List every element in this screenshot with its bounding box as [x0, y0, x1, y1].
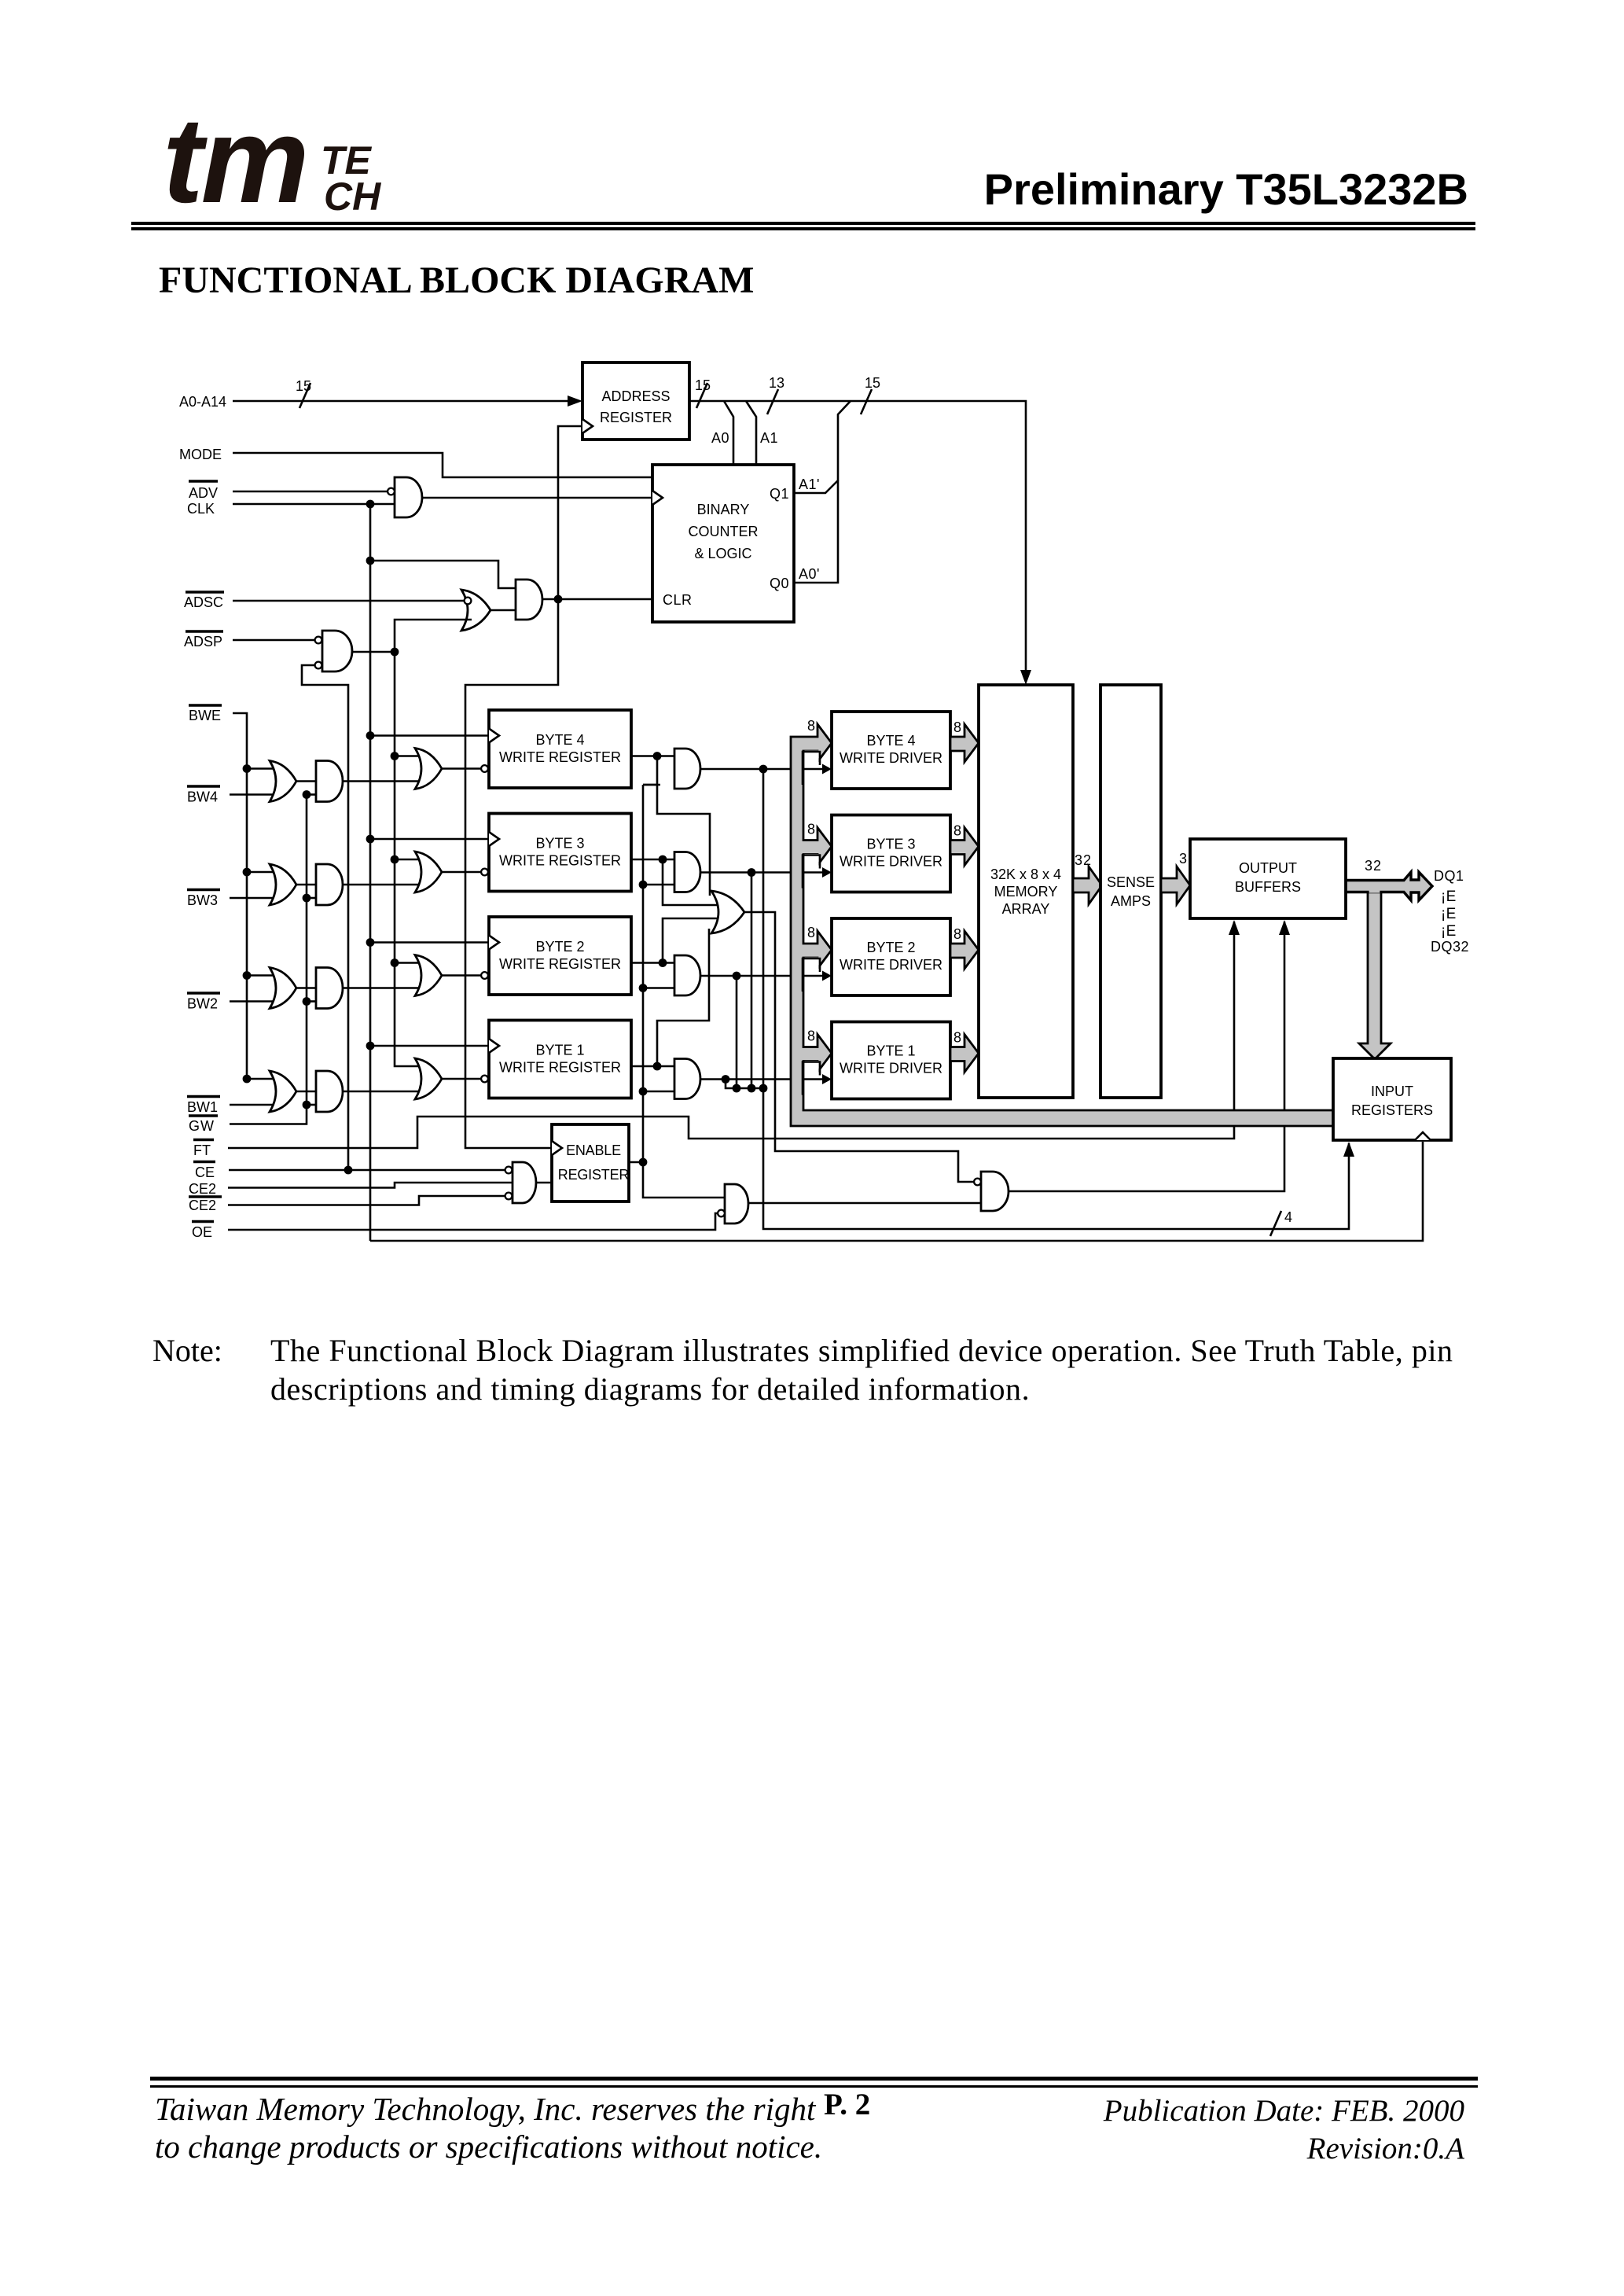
svg-text:OUTPUT: OUTPUT: [1239, 860, 1297, 876]
AND gate byte 2 write driver enable: [674, 955, 700, 995]
wire CLK branch to ADSC AND gate: [370, 561, 516, 588]
svg-text:A0-A14: A0-A14: [179, 394, 226, 410]
wire OR output into byte 1 register bubble: [442, 1076, 488, 1083]
svg-text:13: 13: [769, 375, 784, 391]
white notch arrow byte 3 driver: [803, 854, 832, 889]
svg-text:8: 8: [953, 823, 961, 839]
svg-text:WRITE REGISTER: WRITE REGISTER: [499, 956, 621, 972]
sense amps: [1100, 685, 1161, 1098]
svg-text:A0': A0': [799, 566, 820, 582]
svg-text:MEMORY: MEMORY: [994, 884, 1058, 900]
byte 1 write register: [489, 1021, 631, 1098]
svg-text:SENSE: SENSE: [1107, 874, 1155, 890]
wire OR to AND byte 3: [296, 884, 316, 886]
svg-text:CLR: CLR: [663, 592, 693, 608]
svg-text:BYTE 3: BYTE 3: [535, 836, 584, 852]
svg-text:8: 8: [807, 925, 815, 940]
gray arrow memory to sense amps: [1073, 867, 1102, 904]
svg-text:15: 15: [296, 378, 311, 394]
wire byte2 enable drop: [736, 976, 738, 1088]
DQ32 label: [1431, 939, 1469, 955]
OR gate byte 4 register write input: [415, 749, 442, 789]
byte 1 write driver: [832, 1022, 950, 1099]
wire A1 branch into counter: [746, 401, 756, 465]
svg-text:REGISTERS: REGISTERS: [1351, 1102, 1433, 1118]
wire CE2-bar into enable NAND: [228, 1196, 509, 1205]
wire ADSP-NAND output net: [352, 620, 472, 1066]
wire U7 output to output buffers: [1009, 920, 1290, 1191]
wire enable register clock path: [465, 599, 558, 1148]
svg-text:BYTE 4: BYTE 4: [866, 733, 915, 749]
wire MODE to binary counter: [233, 453, 652, 477]
svg-text:ADV: ADV: [189, 485, 218, 501]
bus slash 15 after counter merge: [861, 375, 880, 414]
pin label Q1: [770, 486, 789, 502]
CLK rail vertical with register clock taps: [366, 504, 375, 1241]
svg-text:CE2: CE2: [189, 1198, 216, 1213]
wire byte3 enable drop: [751, 873, 753, 1089]
bus slash 13: [767, 375, 784, 414]
OR gate byte 3 write select (BWE/BW3): [270, 864, 296, 905]
DQ1 label: [1434, 868, 1464, 884]
wire byte 4 AND output to write driver: [700, 765, 791, 774]
OR gate byte 4 write select (BWE/BW4): [270, 761, 296, 802]
footer double rule: [150, 2077, 1478, 2081]
input label BW4 (active low): [187, 786, 220, 805]
bus width label 8 out of byte 4 driver: [953, 719, 961, 735]
svg-text:COUNTER: COUNTER: [689, 524, 759, 539]
wire byte 4 output to middle OR top: [657, 756, 710, 896]
svg-text:BYTE 1: BYTE 1: [535, 1043, 584, 1058]
svg-text:BWE: BWE: [189, 708, 221, 723]
svg-text:8: 8: [807, 822, 815, 837]
svg-text:4: 4: [1284, 1209, 1292, 1225]
OR gate byte 1 write select (BWE/BW1): [270, 1071, 296, 1112]
wire AND output to byte 3 register OR: [343, 884, 423, 886]
svg-text:& LOGIC: & LOGIC: [694, 546, 751, 561]
white notch arrow byte 4 driver: [803, 751, 832, 786]
wire ADSC into OR bubble: [233, 600, 464, 602]
wire OR to AND byte 1: [296, 1091, 316, 1093]
input label ADSC (active low): [184, 592, 224, 610]
input label CE2: [189, 1181, 216, 1197]
svg-text:8: 8: [953, 719, 961, 735]
wire AND output to byte 1 register OR: [343, 1091, 423, 1093]
svg-text:15: 15: [695, 377, 711, 393]
wire CE into enable NAND: [229, 1169, 509, 1172]
svg-text:A1': A1': [799, 476, 820, 492]
clock gate U1 (ADV/CLK AND): [388, 477, 422, 517]
svg-text:Q1: Q1: [770, 486, 789, 502]
address register: [582, 362, 689, 440]
svg-text:BYTE 2: BYTE 2: [535, 939, 584, 955]
bus width label 8 out of byte 3 driver: [953, 823, 961, 839]
svg-text:CLK: CLK: [187, 501, 215, 517]
wire A0-A14 bus into address register with arrowhead: [233, 396, 582, 407]
wire byte 2 register clock tap: [366, 938, 489, 947]
svg-text:Q0: Q0: [770, 576, 789, 591]
svg-text:BYTE 2: BYTE 2: [866, 940, 915, 955]
AND gate byte 3 write driver enable: [674, 852, 700, 892]
wire BW2: [230, 1000, 277, 1003]
memory array: [979, 685, 1073, 1098]
wire Q1 / A1 feedback to trunk: [794, 401, 851, 493]
input label OE (active low): [192, 1222, 214, 1241]
wire enable register output: [629, 1161, 643, 1164]
OR gate byte 2 write select (BWE/BW2): [270, 968, 296, 1009]
svg-text:CE2: CE2: [189, 1181, 216, 1197]
wire OR to AND byte 4: [296, 780, 316, 782]
input label BW1 (active low): [187, 1097, 220, 1116]
svg-text:32: 32: [1075, 852, 1092, 868]
svg-text:8: 8: [807, 718, 815, 734]
footer page number: [824, 2089, 870, 2120]
bus slash 15 on A0-A14: [296, 378, 311, 408]
svg-text:DQ32: DQ32: [1431, 939, 1469, 955]
pin label Q0: [770, 576, 789, 591]
input label BWE (active low): [189, 705, 222, 723]
byte 2 write driver: [832, 918, 950, 995]
enable NAND gate U5: [505, 1162, 536, 1203]
svg-text:WRITE DRIVER: WRITE DRIVER: [840, 750, 942, 766]
svg-text:8: 8: [807, 1028, 815, 1044]
svg-text:BUFFERS: BUFFERS: [1235, 879, 1301, 895]
svg-text:WRITE DRIVER: WRITE DRIVER: [840, 957, 942, 973]
input label FT (active low): [193, 1140, 214, 1159]
wire byte 3 output to middle OR: [663, 859, 724, 905]
input label CLK: [187, 501, 215, 517]
wire byte 1 register clock tap: [366, 1042, 489, 1050]
bus width label 8 into byte 3 driver: [807, 822, 815, 837]
svg-text:MODE: MODE: [179, 447, 222, 462]
wire FT to output buffers enable: [228, 920, 1240, 1148]
bus width label 3 (clipped 32): [1179, 851, 1187, 867]
output buffers: [1190, 839, 1346, 918]
svg-text:DQ1: DQ1: [1434, 868, 1464, 884]
wire byte 2 AND output to write driver: [700, 972, 791, 981]
wire byte 3 register clock tap: [366, 835, 489, 844]
byte 2 write register: [489, 917, 631, 995]
svg-text:OE: OE: [192, 1224, 212, 1240]
gray arrow byte 1 driver to memory: [950, 1035, 979, 1073]
gray DQ bus horizontal with bidirectional arrow: [1346, 872, 1432, 900]
footer right text: [943, 2092, 1464, 2168]
pin label CLR: [663, 592, 693, 608]
wire write enable bundle junctions: [726, 1080, 767, 1093]
AND gate byte 1 write select (GW): [316, 1071, 343, 1112]
input label MODE: [179, 447, 222, 462]
address bus trunk to memory array: [689, 401, 1031, 685]
wire BWE rail feeding byte-write OR gates: [233, 713, 277, 1083]
bus width label 32 memory output: [1075, 852, 1092, 868]
wire CLK into clock gate, junction to CLK rail: [233, 500, 395, 509]
wire middle OR output down to OE gate path: [744, 912, 975, 1182]
pin label A0': [799, 566, 820, 582]
wire byte 4 AND lower stub: [643, 784, 660, 786]
gray DQ bus vertical to input registers: [1359, 891, 1391, 1059]
svg-text:¡E: ¡E: [1441, 906, 1457, 922]
svg-text:ENABLE: ENABLE: [566, 1142, 621, 1158]
byte 3 write register: [489, 814, 631, 892]
svg-text:GW: GW: [189, 1118, 215, 1134]
wire OR output into byte 2 register bubble: [442, 972, 488, 979]
wire byte4 enable drop and 4-bit bundle to input registers: [763, 769, 1354, 1229]
svg-text:BW2: BW2: [187, 996, 218, 1012]
svg-text:BYTE 1: BYTE 1: [866, 1043, 915, 1059]
wire byte 1 output to middle OR bottom: [657, 929, 709, 1066]
pin label A1: [760, 430, 778, 446]
svg-text:WRITE DRIVER: WRITE DRIVER: [840, 854, 942, 870]
logo tmTECH: [163, 99, 307, 221]
bus width label 32 DQ: [1365, 858, 1382, 874]
wire AND output to byte 4 register OR: [343, 780, 423, 782]
wire A0 branch into counter: [724, 401, 733, 465]
binary counter box: [652, 465, 794, 622]
bus slash 15 after address register: [695, 377, 711, 408]
input label CE2 (active low): [189, 1197, 222, 1213]
wire byte 2 output to middle OR: [663, 918, 724, 963]
svg-text:WRITE REGISTER: WRITE REGISTER: [499, 1060, 621, 1076]
input label A0-A14: [179, 394, 226, 410]
pin label A1': [799, 476, 820, 492]
wire BW4: [230, 793, 277, 796]
wire BW1: [230, 1104, 277, 1106]
wire ADSP into NAND bubble: [233, 639, 315, 642]
byte 3 write driver: [832, 815, 950, 892]
AND gate byte 3 write select (GW): [316, 864, 343, 905]
bus width label 8 into byte 4 driver: [807, 718, 815, 734]
wire enable rail elbow: [643, 784, 657, 786]
gray arrow byte 3 driver to memory: [950, 828, 979, 866]
wire byte 4 register output: [631, 752, 674, 760]
wire GW rail feeding AND gates: [230, 790, 316, 1124]
wire enable output to OE gate: [643, 1162, 725, 1198]
svg-text:CE: CE: [195, 1165, 215, 1180]
svg-text:BW1: BW1: [187, 1099, 218, 1115]
wire BW3: [230, 897, 277, 900]
white notch arrow byte 1 driver: [803, 1061, 832, 1095]
bus width label 8 into byte 2 driver: [807, 925, 815, 940]
DQ ellipsis labels: [1441, 889, 1457, 940]
gray arrow byte 2 driver to memory: [950, 931, 979, 969]
input registers: [1333, 1058, 1451, 1140]
svg-text:ADSP: ADSP: [184, 634, 222, 649]
svg-text:FT: FT: [193, 1142, 211, 1158]
wire byte 3 register output: [631, 855, 674, 864]
AND gate byte 1 write driver enable: [674, 1059, 700, 1099]
OR gate byte 3 register write input: [415, 852, 442, 892]
svg-text:REGISTER: REGISTER: [600, 410, 672, 425]
svg-text:¡E: ¡E: [1441, 923, 1457, 940]
svg-text:BINARY: BINARY: [697, 502, 750, 517]
enable register: [552, 1124, 629, 1201]
output enable gate U6: [718, 1184, 748, 1223]
header product title: [827, 167, 1468, 212]
AND gate byte 4 write driver enable: [674, 749, 700, 789]
wire byte 4 register clock tap: [366, 731, 489, 740]
footer left text: [155, 2091, 822, 2166]
svg-text:8: 8: [953, 926, 961, 942]
svg-text:AMPS: AMPS: [1111, 893, 1151, 909]
svg-text:BYTE 3: BYTE 3: [866, 837, 915, 852]
note paragraph: [152, 1332, 222, 1371]
svg-text:REGISTER: REGISTER: [558, 1167, 630, 1183]
svg-text:BW3: BW3: [187, 892, 218, 908]
wire enable register output rail: [639, 785, 674, 1166]
svg-text:ADDRESS: ADDRESS: [601, 388, 670, 404]
byte 4 write register: [489, 710, 631, 788]
svg-text:A1: A1: [760, 430, 778, 446]
svg-text:ARRAY: ARRAY: [1002, 901, 1050, 917]
wire ADV into NAND bubble: [233, 491, 388, 493]
svg-text:8: 8: [953, 1030, 961, 1046]
wire CE2 into enable NAND: [228, 1183, 513, 1188]
svg-text:INPUT: INPUT: [1371, 1084, 1413, 1099]
NAND gate U4 (ADSP NAND): [315, 631, 352, 672]
OR gate U2 (ADSC OR): [461, 590, 491, 631]
wire byte 2 register output: [631, 959, 674, 967]
svg-text:¡E: ¡E: [1441, 889, 1457, 905]
input label CE (active low): [193, 1162, 215, 1181]
input label BW3 (active low): [187, 890, 220, 909]
wire OR to AND byte 2: [296, 987, 316, 989]
pin label A0: [711, 430, 729, 446]
svg-text:BW4: BW4: [187, 789, 218, 805]
svg-text:BYTE 4: BYTE 4: [535, 732, 584, 748]
wire OR output into byte 3 register bubble: [442, 869, 488, 876]
svg-text:3: 3: [1179, 851, 1187, 867]
bus slash 4: [1270, 1209, 1292, 1236]
wire CLK rail to input registers clock: [370, 1142, 1423, 1241]
wire U2 output to U3: [491, 609, 516, 612]
wire byte 1 register output: [631, 1062, 674, 1071]
bus width label 8 out of byte 1 driver: [953, 1030, 961, 1046]
wire clock gate output to binary counter clock: [422, 497, 652, 499]
svg-text:32: 32: [1365, 858, 1382, 874]
svg-text:ADSC: ADSC: [184, 594, 223, 610]
gray write data bus with byte driver arrows: [791, 724, 1333, 1126]
wire OR output into byte 4 register bubble: [442, 765, 488, 772]
svg-text:WRITE REGISTER: WRITE REGISTER: [499, 749, 621, 765]
svg-text:WRITE DRIVER: WRITE DRIVER: [840, 1061, 942, 1076]
gray arrow sense amps to output buffers: [1161, 867, 1190, 904]
bus width label 8 into byte 1 driver: [807, 1028, 815, 1044]
input label BW2 (active low): [187, 993, 220, 1012]
svg-text:15: 15: [865, 375, 880, 391]
output enable gate U7: [974, 1172, 1009, 1211]
header double rule: [131, 222, 1475, 225]
middle OR gate (register outputs combiner): [711, 891, 744, 933]
wire AND output to byte 2 register OR: [343, 987, 423, 989]
input label ADSP (active low): [184, 631, 223, 649]
wire byte 3 AND output to write driver: [700, 868, 791, 877]
OR gate byte 1 register write input: [415, 1058, 442, 1099]
byte 4 write driver: [832, 712, 950, 789]
input label GW (active low): [189, 1116, 218, 1134]
AND gate U3 (ADSC AND): [516, 580, 542, 620]
wire U6 output to U7: [748, 1202, 981, 1205]
svg-text:WRITE REGISTER: WRITE REGISTER: [499, 853, 621, 869]
input label ADV (active low): [189, 481, 218, 501]
OR gate byte 2 register write input: [415, 955, 442, 996]
AND gate byte 4 write select (GW): [316, 761, 343, 802]
gray arrow byte 4 driver to memory: [950, 724, 979, 762]
wire OE into output enable gate: [228, 1213, 718, 1230]
bus width label 8 out of byte 2 driver: [953, 926, 961, 942]
AND gate byte 2 write select (GW): [316, 968, 343, 1009]
wire U5 output into enable register: [536, 1182, 552, 1184]
wire U3 output to counter CLR and address clock rail: [542, 426, 652, 603]
svg-text:A0: A0: [711, 430, 729, 446]
white notch arrow byte 2 driver: [803, 958, 832, 992]
wire Q0 / A0 feedback: [794, 480, 838, 583]
wire U4 second input from CE line: [302, 665, 352, 1174]
svg-text:32K x 8 x 4: 32K x 8 x 4: [990, 867, 1061, 882]
page title: [159, 262, 754, 300]
wire byte 1 AND output to write driver: [700, 1075, 791, 1084]
